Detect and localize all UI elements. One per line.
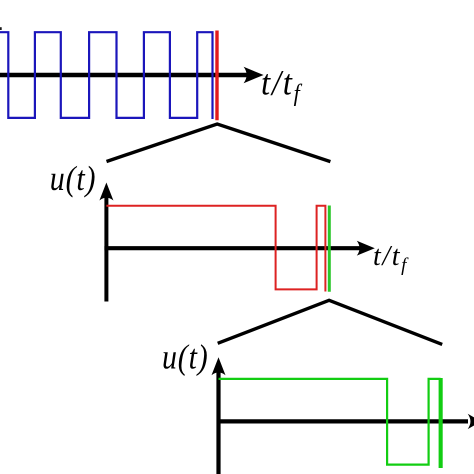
green zoom-marker line, middle plot <box>328 206 331 292</box>
red zoom-marker line, top plot <box>215 31 218 121</box>
middle plot time axis <box>104 241 374 256</box>
red signal trace u(t), middle plot <box>106 206 325 292</box>
zoom bracket 1 <box>107 124 331 162</box>
zoom bracket 2 <box>218 300 443 344</box>
green signal trace u(t), bottom plot <box>219 379 441 465</box>
middle plot vertical axis <box>99 183 113 302</box>
blue square wave u(t), top plot <box>0 32 213 119</box>
svg-text:u(t): u(t) <box>162 337 209 375</box>
bottom plot vertical axis <box>212 357 226 474</box>
top plot time axis <box>0 67 264 83</box>
clipped label fragment top-left <box>0 27 2 30</box>
bottom plot time axis <box>217 414 474 429</box>
svg-text:u(t): u(t) <box>50 159 97 197</box>
green zoom-marker line, bottom plot <box>439 378 443 468</box>
